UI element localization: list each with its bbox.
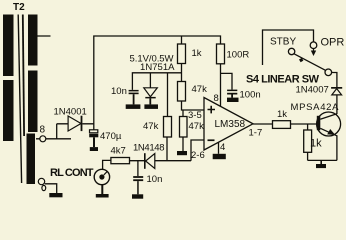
- svg-text:2-6: 2-6: [191, 150, 205, 161]
- svg-text:8: 8: [214, 93, 219, 104]
- svg-text:3-5: 3-5: [188, 110, 202, 121]
- svg-text:1N751A: 1N751A: [140, 62, 175, 73]
- svg-text:1-7: 1-7: [249, 128, 263, 139]
- svg-text:1N4001: 1N4001: [54, 107, 87, 118]
- svg-text:1k: 1k: [310, 138, 322, 150]
- svg-text:STBY: STBY: [270, 37, 296, 48]
- svg-text:1k: 1k: [277, 109, 287, 120]
- svg-text:4: 4: [220, 142, 225, 153]
- svg-text:47k: 47k: [189, 121, 205, 132]
- svg-text:S4 LINEAR SW: S4 LINEAR SW: [246, 74, 320, 86]
- svg-text:LM358: LM358: [215, 119, 246, 130]
- svg-text:T2: T2: [13, 2, 25, 13]
- svg-text:RL CONT: RL CONT: [50, 167, 94, 179]
- svg-text:8: 8: [40, 125, 46, 136]
- svg-text:100n: 100n: [240, 90, 261, 101]
- svg-text:47k: 47k: [143, 121, 159, 132]
- svg-text:1N4007: 1N4007: [296, 85, 329, 96]
- svg-text:1N4148: 1N4148: [133, 142, 165, 153]
- svg-text:470µ: 470µ: [100, 131, 122, 142]
- svg-text:1k: 1k: [192, 48, 202, 59]
- svg-text:100R: 100R: [227, 50, 250, 61]
- svg-text:MPSA42A: MPSA42A: [291, 102, 340, 113]
- svg-text:10n: 10n: [147, 174, 163, 185]
- svg-text:47k: 47k: [192, 84, 208, 95]
- svg-text:OPR: OPR: [321, 37, 345, 49]
- svg-text:4k7: 4k7: [111, 146, 126, 157]
- svg-text:10n: 10n: [111, 86, 127, 97]
